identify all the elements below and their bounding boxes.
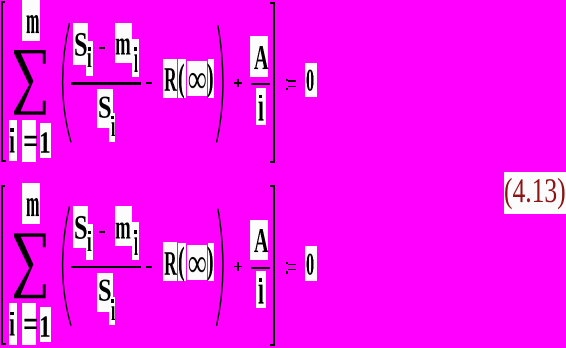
plus vertical eq2 [237, 262, 239, 271]
glyph infinity eq1 [188, 59, 206, 99]
patch i lower eq2 [9, 303, 17, 345]
glyph ( after R eq1 [178, 58, 185, 97]
left bracket bottom tick eq1 [1, 160, 6, 162]
dot of i in i=1 eq2 [10, 312, 14, 316]
patch S num eq2 [73, 206, 88, 248]
patch m num eq2 [115, 206, 132, 246]
glyph 1 of i=1 eq2 [39, 311, 51, 342]
minus in numerator eq2 [99, 231, 105, 233]
colon bottom dot eq2 [286, 271, 288, 273]
glyph i stem sub of S num eq1 [87, 42, 92, 72]
glyph R eq1 [164, 62, 177, 97]
fraction bar A/i eq2 [251, 267, 270, 269]
glyph 1 of i=1 eq1 [39, 127, 51, 158]
left bracket top tick eq1 [1, 1, 5, 3]
glyph infinity eq2 [188, 243, 206, 283]
glyph ( after R eq2 [178, 241, 185, 280]
patch A eq1 [250, 36, 268, 77]
patch i sub1 eq2 [86, 224, 93, 260]
glyph i stem sub of S num eq2 [87, 226, 92, 256]
glyph S denominator eq1 [98, 91, 111, 123]
patch i sub3 eq2 [109, 297, 115, 326]
glyph i stem sub of m num eq2 [134, 223, 138, 261]
glyph ) after inf eq1 [207, 58, 214, 96]
patch 1 lower eq2 [40, 307, 51, 342]
patch ( eq1 [178, 59, 186, 98]
dot of i sub S den eq1 [111, 116, 114, 120]
glyph i stem sub of S den eq1 [111, 111, 115, 141]
right bracket top tick eq2 [270, 185, 275, 187]
colon top dot eq1 [286, 79, 288, 81]
equals bottom bar eq2 [288, 269, 296, 270]
patch R eq2 [163, 242, 177, 281]
glyph S numerator eq1 [74, 27, 88, 61]
patch inf eq1 [187, 61, 206, 96]
colon bottom dot eq1 [286, 88, 288, 90]
patch m-top eq2 [22, 183, 41, 224]
patch m-top eq1 [22, 0, 41, 41]
minus in numerator eq1 [99, 47, 105, 49]
glyph i stem below A eq2 [258, 269, 264, 311]
plus vertical eq1 [237, 79, 239, 88]
glyph ) after inf eq2 [207, 241, 214, 279]
glyph m above sum eq2 [26, 184, 39, 223]
patch = lower eq1 [22, 120, 36, 162]
right bracket vertical eq1 [273, 2, 275, 163]
glyph S numerator eq2 [74, 210, 88, 244]
plus horizontal eq1 [234, 82, 243, 84]
right bracket top tick eq1 [270, 2, 275, 4]
patch m num eq1 [115, 23, 132, 63]
glyph S denominator eq2 [98, 274, 111, 306]
glyph A eq1 [254, 40, 268, 75]
left bracket vertical eq2 [1, 185, 3, 346]
glyph m above sum eq1 [26, 1, 39, 40]
patch i sub3 eq1 [109, 113, 115, 142]
glyph i stem sub of S den eq2 [111, 295, 115, 325]
patch S den eq1 [97, 89, 113, 128]
patch i sub2 eq1 [132, 39, 139, 78]
right bracket bottom tick eq1 [270, 161, 275, 163]
dot of i sub S den eq2 [111, 299, 114, 303]
patch inf eq2 [187, 245, 206, 280]
patch 0 eq1 [305, 63, 317, 98]
patch 0 eq2 [305, 246, 317, 281]
glyph 0 rhs eq2 [306, 248, 314, 280]
glyph 0 rhs eq1 [306, 64, 314, 96]
equation number (4.13) [504, 173, 566, 208]
minus before R eq2 [146, 266, 151, 268]
glyph = of i=1 eq2 [23, 305, 38, 343]
patch ) eq2 [208, 243, 215, 282]
fraction bar main eq2 [71, 266, 141, 268]
patch S den eq2 [97, 273, 113, 312]
glyph m numerator eq1 [115, 26, 131, 60]
left bracket bottom tick eq2 [1, 343, 6, 345]
patch ) eq1 [208, 59, 215, 98]
glyph i stem below A eq1 [258, 86, 264, 128]
patch i sub2 eq2 [132, 222, 139, 261]
equals bottom bar eq1 [288, 86, 296, 87]
dot of i below A eq1 [259, 95, 262, 99]
plus horizontal eq2 [234, 266, 243, 268]
fraction bar main eq1 [71, 82, 141, 84]
patch A eq2 [250, 220, 268, 261]
patch i sub4 eq1 [256, 88, 266, 125]
left bracket top tick eq2 [1, 185, 5, 187]
dot of i sub S num eq2 [88, 231, 91, 235]
patch 1 lower eq1 [40, 123, 51, 158]
dot of i sub m num eq2 [134, 230, 137, 234]
dot of i sub S num eq1 [88, 47, 91, 51]
glyph = of i=1 eq1 [23, 122, 38, 160]
fraction bar A/i eq1 [251, 83, 270, 85]
right bracket bottom tick eq2 [270, 344, 275, 346]
patch S num eq1 [73, 23, 88, 65]
equation number patch [504, 172, 566, 215]
dot of i below A eq2 [259, 278, 262, 282]
patch i sub1 eq1 [86, 41, 93, 77]
glyph i stem of i=1 eq1 [9, 123, 15, 159]
dot of i in i=1 eq1 [10, 128, 14, 132]
dot of i sub m num eq1 [134, 47, 137, 51]
patch i lower eq1 [9, 120, 17, 162]
equals top bar eq1 [288, 80, 296, 82]
glyph i stem sub of m num eq1 [134, 40, 138, 78]
patch ( eq2 [178, 243, 186, 282]
glyph i stem of i=1 eq2 [9, 306, 15, 342]
minus before R eq1 [146, 82, 151, 84]
patch R eq1 [163, 59, 177, 98]
glyph R eq2 [164, 246, 177, 281]
patch = lower eq2 [22, 303, 36, 345]
right bracket vertical eq2 [273, 185, 275, 346]
patch i sub4 eq2 [256, 271, 266, 308]
equals top bar eq2 [288, 264, 296, 266]
colon top dot eq2 [286, 262, 288, 264]
left bracket vertical eq1 [1, 1, 3, 162]
glyph m numerator eq2 [115, 210, 131, 244]
glyph A eq2 [254, 223, 268, 258]
